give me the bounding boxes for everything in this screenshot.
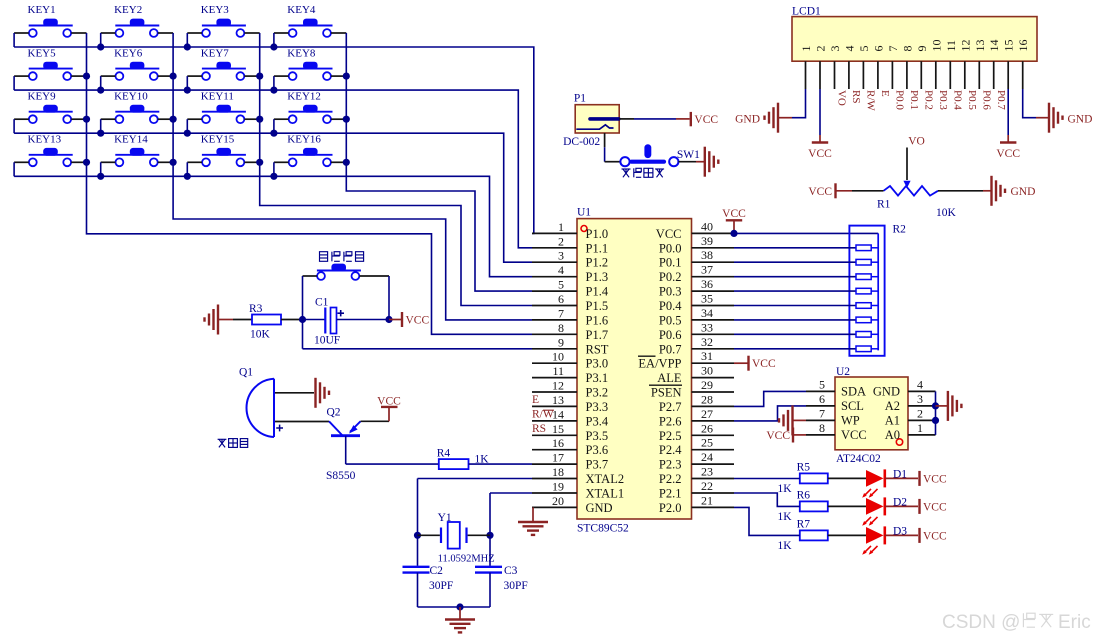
- svg-text:D2: D2: [893, 496, 907, 508]
- svg-text:28: 28: [701, 392, 713, 406]
- svg-text:40: 40: [701, 219, 713, 233]
- svg-text:KEY14: KEY14: [114, 134, 148, 146]
- svg-text:VCC: VCC: [923, 501, 947, 513]
- svg-text:37: 37: [701, 263, 713, 277]
- svg-text:36: 36: [701, 277, 713, 291]
- svg-text:P3.2: P3.2: [586, 386, 609, 400]
- svg-text:VCC: VCC: [406, 315, 430, 327]
- svg-text:KEY10: KEY10: [114, 90, 148, 102]
- svg-text:P2.2: P2.2: [659, 472, 682, 486]
- svg-text:A1: A1: [885, 414, 900, 428]
- svg-text:RS: RS: [532, 423, 546, 435]
- svg-text:12: 12: [958, 40, 972, 52]
- svg-text:1K: 1K: [778, 483, 793, 495]
- svg-text:22: 22: [701, 479, 713, 493]
- svg-text:4: 4: [842, 46, 856, 52]
- svg-text:VCC: VCC: [694, 114, 718, 126]
- svg-text:2: 2: [558, 234, 564, 248]
- svg-text:10: 10: [929, 40, 943, 52]
- svg-text:4: 4: [558, 263, 564, 277]
- svg-text:P2.5: P2.5: [659, 429, 682, 443]
- svg-text:18: 18: [552, 465, 564, 479]
- svg-text:14: 14: [987, 40, 1001, 52]
- svg-text:3: 3: [917, 392, 923, 406]
- svg-text:KEY13: KEY13: [28, 134, 62, 146]
- svg-text:C2: C2: [430, 565, 444, 577]
- svg-text:C1: C1: [315, 297, 329, 309]
- svg-text:10K: 10K: [936, 207, 957, 219]
- svg-text:Eric: Eric: [1058, 612, 1091, 633]
- svg-text:KEY6: KEY6: [114, 47, 143, 59]
- svg-text:GND: GND: [735, 114, 760, 126]
- svg-text:KEY4: KEY4: [287, 4, 316, 16]
- svg-text:P1.1: P1.1: [586, 241, 609, 255]
- svg-text:P3.6: P3.6: [586, 443, 609, 457]
- svg-text:VCC: VCC: [377, 395, 401, 407]
- svg-text:15: 15: [552, 422, 564, 436]
- svg-text:KEY1: KEY1: [28, 4, 56, 16]
- svg-text:6: 6: [819, 392, 825, 406]
- svg-text:P0.2: P0.2: [659, 270, 682, 284]
- svg-text:17: 17: [552, 451, 564, 465]
- svg-text:8: 8: [900, 46, 914, 52]
- svg-text:S8550: S8550: [326, 470, 356, 482]
- svg-text:P0.3: P0.3: [659, 285, 682, 299]
- svg-text:7: 7: [886, 46, 900, 52]
- svg-text:Y1: Y1: [438, 512, 452, 524]
- svg-text:P0.2: P0.2: [923, 90, 935, 110]
- svg-text:E: E: [532, 394, 539, 406]
- svg-text:23: 23: [701, 465, 713, 479]
- svg-text:34: 34: [701, 306, 713, 320]
- svg-text:5: 5: [819, 377, 825, 391]
- svg-text:21: 21: [701, 493, 713, 507]
- svg-text:SCL: SCL: [841, 399, 864, 413]
- svg-text:P0.6: P0.6: [659, 328, 682, 342]
- svg-text:P3.5: P3.5: [586, 429, 609, 443]
- svg-text:KEY5: KEY5: [28, 47, 57, 59]
- svg-text:26: 26: [701, 421, 713, 435]
- svg-text:P3.1: P3.1: [586, 371, 609, 385]
- svg-text:R2: R2: [893, 224, 907, 236]
- svg-text:P3.4: P3.4: [586, 414, 609, 428]
- svg-text:33: 33: [701, 320, 713, 334]
- svg-text:P1.3: P1.3: [586, 270, 609, 284]
- svg-text:R6: R6: [797, 489, 811, 501]
- svg-text:12: 12: [552, 379, 564, 393]
- svg-text:8: 8: [819, 421, 825, 435]
- svg-text:KEY16: KEY16: [287, 134, 321, 146]
- svg-text:P0.1: P0.1: [659, 256, 682, 270]
- svg-text:1: 1: [917, 421, 923, 435]
- svg-text:VCC: VCC: [996, 148, 1020, 160]
- svg-text:5: 5: [558, 278, 564, 292]
- svg-text:KEY7: KEY7: [201, 47, 230, 59]
- svg-text:16: 16: [552, 436, 564, 450]
- svg-text:29: 29: [701, 378, 713, 392]
- svg-text:10: 10: [552, 350, 564, 364]
- svg-text:KEY8: KEY8: [287, 47, 316, 59]
- svg-text:VCC: VCC: [656, 227, 682, 241]
- svg-text:P0.5: P0.5: [659, 313, 682, 327]
- svg-text:CSDN @: CSDN @: [942, 612, 1020, 633]
- svg-text:P0.7: P0.7: [659, 342, 682, 356]
- svg-text:VO: VO: [836, 90, 848, 106]
- svg-text:11: 11: [944, 40, 958, 52]
- svg-text:20: 20: [552, 494, 564, 508]
- svg-text:P1: P1: [574, 93, 586, 105]
- svg-text:10UF: 10UF: [314, 335, 340, 347]
- svg-text:PSEN: PSEN: [651, 386, 682, 400]
- svg-text:9: 9: [915, 46, 929, 52]
- svg-text:P1.0: P1.0: [586, 227, 609, 241]
- svg-text:U1: U1: [577, 207, 591, 219]
- svg-text:VCC: VCC: [808, 186, 832, 198]
- svg-text:P1.6: P1.6: [586, 313, 609, 327]
- svg-text:P0.3: P0.3: [937, 90, 949, 110]
- svg-text:VCC: VCC: [923, 530, 947, 542]
- svg-text:24: 24: [701, 450, 713, 464]
- svg-text:KEY2: KEY2: [114, 4, 142, 16]
- svg-text:P0.0: P0.0: [659, 241, 682, 255]
- svg-text:VCC: VCC: [841, 428, 867, 442]
- svg-text:7: 7: [558, 306, 564, 320]
- svg-text:Q2: Q2: [327, 407, 341, 419]
- svg-text:KEY12: KEY12: [287, 90, 321, 102]
- svg-text:1: 1: [558, 220, 564, 234]
- svg-text:P2.0: P2.0: [659, 501, 682, 515]
- svg-text:6: 6: [558, 292, 564, 306]
- svg-text:GND: GND: [586, 501, 613, 515]
- svg-text:D3: D3: [893, 525, 907, 537]
- svg-text:11: 11: [552, 364, 564, 378]
- svg-text:P1.2: P1.2: [586, 256, 609, 270]
- svg-text:2: 2: [917, 406, 923, 420]
- svg-text:3: 3: [558, 249, 564, 263]
- svg-text:SDA: SDA: [841, 385, 866, 399]
- svg-text:39: 39: [701, 234, 713, 248]
- svg-text:C3: C3: [504, 565, 518, 577]
- svg-text:VCC: VCC: [722, 208, 746, 220]
- svg-text:GND: GND: [1068, 114, 1093, 126]
- svg-text:R7: R7: [797, 518, 811, 530]
- svg-text:10K: 10K: [250, 329, 271, 341]
- svg-text:RST: RST: [586, 342, 609, 356]
- svg-text:P0.6: P0.6: [981, 90, 993, 110]
- svg-text:2: 2: [814, 46, 828, 52]
- svg-text:AT24C02: AT24C02: [836, 453, 881, 465]
- svg-text:VCC: VCC: [752, 358, 776, 370]
- svg-text:5: 5: [857, 46, 871, 52]
- svg-text:P2.4: P2.4: [659, 443, 682, 457]
- svg-text:P0.4: P0.4: [952, 90, 964, 110]
- svg-text:D1: D1: [893, 468, 907, 480]
- svg-text:P2.7: P2.7: [659, 400, 682, 414]
- svg-text:30PF: 30PF: [504, 580, 528, 592]
- svg-text:16: 16: [1016, 40, 1030, 52]
- svg-text:KEY9: KEY9: [28, 90, 57, 102]
- svg-text:STC89C52: STC89C52: [577, 523, 629, 535]
- svg-text:P0.5: P0.5: [966, 90, 978, 110]
- svg-text:P1.4: P1.4: [586, 285, 609, 299]
- svg-text:30: 30: [701, 364, 713, 378]
- svg-text:P0.0: P0.0: [894, 90, 906, 110]
- svg-text:RS: RS: [850, 90, 862, 103]
- svg-text:KEY15: KEY15: [201, 134, 235, 146]
- svg-text:P2.3: P2.3: [659, 458, 682, 472]
- svg-text:P2.6: P2.6: [659, 414, 682, 428]
- svg-text:P1.5: P1.5: [586, 299, 609, 313]
- svg-text:19: 19: [552, 480, 564, 494]
- svg-text:6: 6: [871, 46, 885, 52]
- svg-text:LCD1: LCD1: [792, 6, 821, 18]
- svg-text:DC-002: DC-002: [563, 136, 600, 148]
- svg-text:1K: 1K: [778, 540, 793, 552]
- svg-text:E: E: [879, 90, 891, 97]
- svg-text:A0: A0: [885, 428, 900, 442]
- svg-text:EA/VPP: EA/VPP: [638, 357, 681, 371]
- svg-text:ALE: ALE: [657, 371, 682, 385]
- svg-text:4: 4: [917, 377, 923, 391]
- svg-text:A2: A2: [885, 399, 900, 413]
- svg-text:R5: R5: [797, 461, 811, 473]
- svg-text:GND: GND: [1011, 186, 1036, 198]
- svg-text:VCC: VCC: [766, 430, 790, 442]
- svg-text:VCC: VCC: [923, 473, 947, 485]
- svg-text:31: 31: [701, 349, 713, 363]
- svg-text:P2.1: P2.1: [659, 487, 682, 501]
- svg-text:14: 14: [552, 407, 564, 421]
- svg-text:P0.7: P0.7: [995, 90, 1007, 110]
- svg-text:XTAL1: XTAL1: [586, 487, 625, 501]
- svg-text:R/W: R/W: [865, 90, 877, 111]
- svg-text:KEY11: KEY11: [201, 90, 234, 102]
- svg-text:P3.3: P3.3: [586, 400, 609, 414]
- svg-text:13: 13: [552, 393, 564, 407]
- svg-text:15: 15: [1002, 40, 1016, 52]
- svg-text:9: 9: [558, 335, 564, 349]
- svg-text:1: 1: [799, 46, 813, 52]
- svg-text:35: 35: [701, 292, 713, 306]
- svg-text:3: 3: [828, 46, 842, 52]
- svg-text:P1.7: P1.7: [586, 328, 609, 342]
- svg-text:XTAL2: XTAL2: [586, 472, 625, 486]
- svg-text:Q1: Q1: [239, 367, 253, 379]
- svg-text:P0.1: P0.1: [908, 90, 920, 110]
- svg-text:P0.4: P0.4: [659, 299, 682, 313]
- svg-text:13: 13: [973, 40, 987, 52]
- svg-text:30PF: 30PF: [429, 580, 453, 592]
- svg-text:38: 38: [701, 248, 713, 262]
- svg-text:27: 27: [701, 407, 713, 421]
- svg-text:P3.0: P3.0: [586, 357, 609, 371]
- svg-text:7: 7: [819, 406, 825, 420]
- svg-text:P3.7: P3.7: [586, 458, 609, 472]
- svg-text:25: 25: [701, 436, 713, 450]
- svg-text:32: 32: [701, 335, 713, 349]
- svg-text:1K: 1K: [778, 511, 793, 523]
- svg-text:VCC: VCC: [808, 148, 832, 160]
- svg-text:R1: R1: [877, 199, 891, 211]
- svg-text:SW1: SW1: [677, 149, 700, 161]
- svg-text:R4: R4: [437, 448, 451, 460]
- svg-text:GND: GND: [873, 385, 900, 399]
- svg-text:KEY3: KEY3: [201, 4, 230, 16]
- svg-text:11.0592MHZ: 11.0592MHZ: [438, 554, 495, 565]
- svg-text:VO: VO: [908, 136, 925, 148]
- svg-text:WP: WP: [841, 414, 860, 428]
- svg-text:R3: R3: [249, 303, 263, 315]
- svg-text:8: 8: [558, 321, 564, 335]
